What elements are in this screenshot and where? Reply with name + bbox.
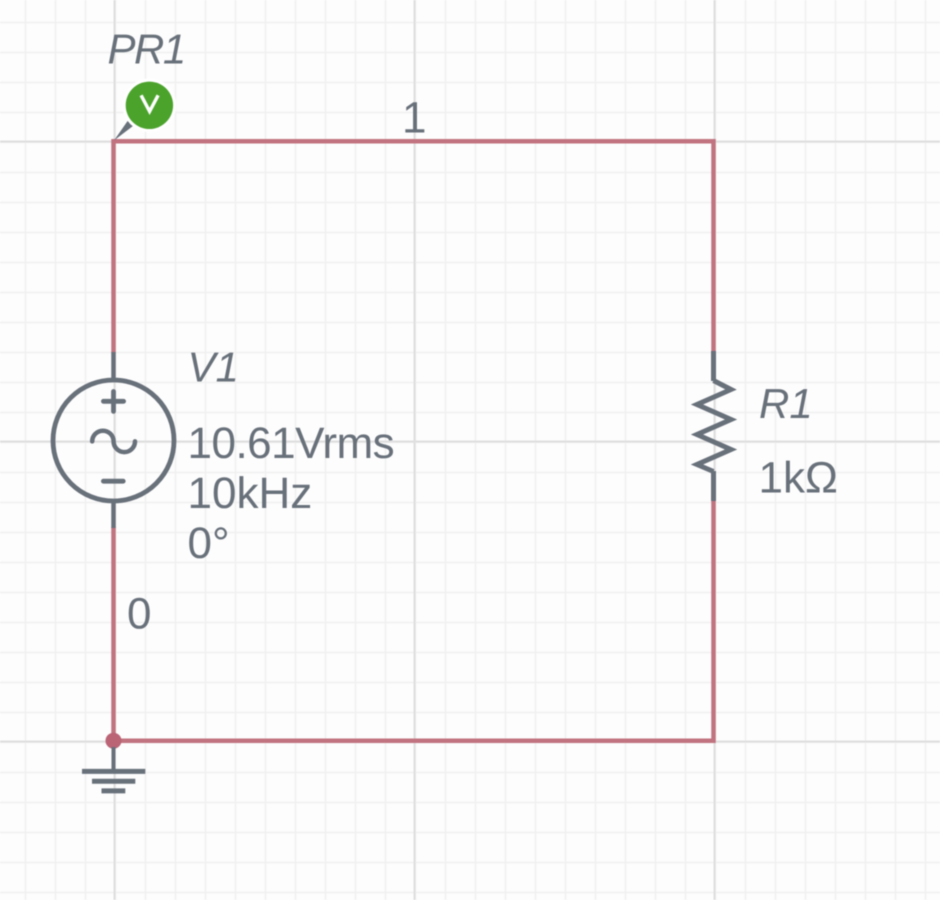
ground bar 1 (82, 769, 145, 774)
svg-text:0: 0 (127, 590, 151, 639)
resistor R1 (697, 351, 731, 501)
ac voltage source V1 (53, 352, 174, 528)
svg-text:V1: V1 (188, 344, 239, 391)
wire: bottom + lower-left + lower-right segments (node 0) (114, 500, 714, 741)
V1 minus sign (103, 479, 123, 484)
svg-text:10.61Vrms: 10.61Vrms (188, 419, 395, 468)
ground bar 3 (102, 788, 126, 793)
major grid horizontal lines (0, 142, 940, 742)
V1 top pin (111, 352, 116, 380)
svg-text:1kΩ: 1kΩ (759, 453, 838, 502)
ground symbol (82, 747, 145, 791)
V1 bottom pin (111, 501, 116, 528)
V1 plus sign (103, 392, 123, 412)
junction dot (node 0) (106, 733, 122, 749)
R1 top pin (711, 351, 716, 381)
wire: top + upper-left + upper-right segments (node 1) (114, 141, 714, 353)
svg-text:R1: R1 (759, 380, 813, 427)
probe PR1 needle (114, 118, 135, 140)
V1 circle body (53, 380, 174, 501)
svg-text:10kHz: 10kHz (188, 469, 313, 518)
major grid vertical lines (115, 0, 715, 900)
R1 zigzag body (697, 381, 731, 472)
R1 bottom pin (711, 471, 716, 501)
probe PR1 green circle (126, 82, 173, 129)
ground bar 2 (92, 779, 135, 784)
ground stem (112, 747, 116, 770)
probe PR1 white halo (123, 79, 177, 133)
probe PR1 V letter (141, 95, 158, 111)
svg-text:1: 1 (402, 94, 426, 143)
V1 sine symbol (92, 431, 135, 452)
svg-text:PR1: PR1 (108, 26, 185, 73)
svg-text:0°: 0° (188, 519, 230, 568)
